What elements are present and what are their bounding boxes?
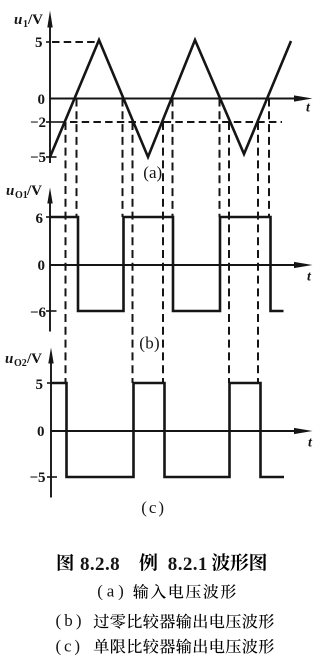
panel (b): y-axis of uO1 plot: [47, 188, 52, 332]
svg-text:/V: /V: [27, 12, 43, 28]
svg-text:−2: −2: [30, 115, 46, 131]
svg-text:(b): (b): [139, 333, 160, 352]
svg-text:−5: −5: [29, 470, 45, 486]
svg-text:(c): (c): [56, 637, 83, 656]
panel (c): tick and label 5: [36, 377, 52, 393]
svg-text:u: u: [6, 183, 14, 199]
panel (b): tick and label 6: [36, 211, 51, 227]
svg-text:t: t: [307, 270, 312, 285]
svg-text:(c): (c): [141, 498, 166, 517]
figure caption line: 图 8.2.8 例 8.2.1 波形图: [58, 554, 74, 571]
panel (a): tick and label 5: [35, 35, 50, 51]
panel (c): axis label uO2/V: [5, 351, 42, 369]
svg-text:8.2.1: 8.2.1: [168, 554, 208, 575]
svg-text:(a): (a): [143, 163, 162, 182]
square wave uO1 (zero-crossing comparator output): [50, 217, 284, 311]
panel (c): tick and label -5: [29, 470, 57, 486]
svg-text:−5: −5: [30, 150, 46, 166]
panel (a): tick and label -2: [30, 115, 50, 131]
panel (b): x-axis (t) of uO1 plot: [50, 262, 313, 268]
svg-text:u: u: [14, 12, 22, 28]
svg-text:0: 0: [38, 92, 46, 108]
svg-text:5: 5: [35, 35, 43, 51]
svg-text:5: 5: [36, 377, 44, 393]
svg-text:O1: O1: [15, 190, 28, 201]
square wave uO2 (single-limit comparator output): [51, 383, 284, 477]
panel (b): tick and label -6: [30, 305, 57, 321]
panel (c): x-axis (t) of uO2 plot: [51, 428, 313, 434]
svg-text:(a): (a): [97, 581, 127, 600]
svg-text:/V: /V: [26, 351, 42, 367]
svg-text:/V: /V: [26, 183, 42, 199]
panel (c): y-axis of uO2 plot: [48, 348, 53, 498]
panel (a): axis label u1/V: [14, 12, 43, 30]
svg-text:(b): (b): [56, 611, 85, 630]
svg-text:6: 6: [36, 211, 44, 227]
panel (a): y-axis of u1 plot: [47, 11, 52, 164]
svg-text:−6: −6: [30, 305, 47, 321]
svg-text:t: t: [306, 101, 311, 116]
svg-text:O2: O2: [14, 358, 27, 369]
panel (a): tick and label -5: [30, 150, 57, 166]
panel (a): -2 threshold level line (solid then dashed): [50, 121, 282, 123]
svg-text:0: 0: [37, 424, 45, 440]
panel (a): x-axis (t) of u1 plot: [50, 95, 313, 101]
panel (a): dashed +5 reference level: [52, 41, 97, 43]
svg-text:t: t: [308, 436, 313, 451]
triangle wave u1: [50, 40, 291, 157]
svg-text:u: u: [5, 351, 13, 367]
panel (b): axis label uO1/V: [6, 183, 42, 201]
dashed projection lines at zero crossings of u1 down to uO1 wave: [77, 99, 270, 218]
svg-text:8.2.8: 8.2.8: [80, 554, 120, 575]
dashed projection lines at -2V crossings of u1 down to uO2 wave: [66, 122, 259, 383]
svg-text:0: 0: [38, 258, 46, 274]
